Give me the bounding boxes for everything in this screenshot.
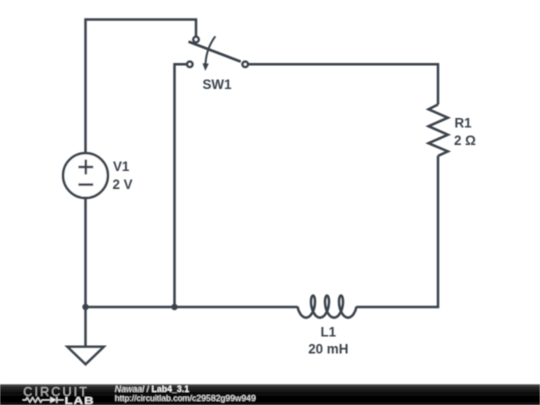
switch SW1 blade <box>189 42 241 62</box>
ground symbol <box>67 347 104 365</box>
voltage source V1 body <box>63 153 108 198</box>
switch SW1 arrow head <box>203 63 209 71</box>
V1 plus sign <box>78 160 93 175</box>
logo resistor-diode symbol <box>23 397 64 403</box>
SW1 lower throw terminal <box>187 62 192 67</box>
wire R1 bottom to bottom bus right corner <box>357 156 439 307</box>
logo diode triangle <box>50 397 56 403</box>
svg-text:V1: V1 <box>113 159 130 174</box>
svg-text:2 V: 2 V <box>113 177 133 192</box>
junction node at middle branch <box>171 304 177 310</box>
V1 minus sign <box>78 183 93 186</box>
svg-text:http://circuitlab.com/c29582g9: http://circuitlab.com/c29582g99w949 <box>115 393 256 403</box>
svg-text:R1: R1 <box>455 116 473 131</box>
wire ground stem <box>84 307 87 346</box>
footer bar <box>0 384 540 405</box>
switch SW1 actuation arc <box>206 36 216 64</box>
wire bottom bus left segment <box>86 306 298 309</box>
svg-text:L1: L1 <box>320 325 336 340</box>
wire V1 bottom to ground junction <box>84 198 87 308</box>
svg-text:20 mH: 20 mH <box>308 341 348 356</box>
SW1 common terminal (pole) <box>193 37 198 42</box>
wire top-left vertical (V1 top to top bus) <box>86 20 197 154</box>
svg-text:SW1: SW1 <box>203 77 233 92</box>
wire switch bottom throw to middle vertical <box>175 64 187 307</box>
inductor L1 <box>298 296 357 318</box>
svg-text:LAB: LAB <box>65 394 95 405</box>
resistor R1 <box>429 105 448 156</box>
junction node at ground <box>82 304 88 310</box>
svg-text:2 Ω: 2 Ω <box>454 133 476 148</box>
wire switch right to R1 top <box>249 64 439 104</box>
SW1 right throw terminal <box>243 62 248 67</box>
